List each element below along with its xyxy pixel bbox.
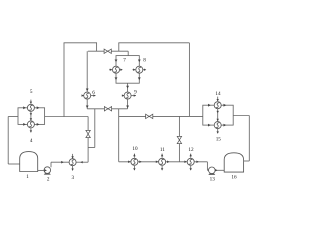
HX11 top arrow xyxy=(161,154,163,156)
wire riser x94.8 xyxy=(94,109,96,148)
label 7 xyxy=(123,57,126,63)
arrow into HX9 xyxy=(126,86,129,89)
svg-text:6: 6 xyxy=(92,90,95,96)
HX5-HX4 connecting stub xyxy=(30,111,32,121)
HX3 bottom arrow xyxy=(71,169,73,171)
HX8 left stub xyxy=(133,69,136,71)
HX10 bottom arrow xyxy=(133,168,135,170)
tank 16 xyxy=(224,153,243,172)
svg-text:2: 2 xyxy=(47,177,50,183)
svg-text:14: 14 xyxy=(215,91,221,97)
HX9 right stub xyxy=(131,95,136,97)
HX8 right stub arrow xyxy=(144,69,146,71)
wire manifold y108.8 xyxy=(87,108,127,110)
label 16 xyxy=(231,174,237,180)
HX7 right stub arrow xyxy=(120,69,122,71)
HX5 top arrow xyxy=(30,102,32,104)
arrow top edge right xyxy=(37,106,40,109)
pump 2 xyxy=(44,167,51,175)
label 4 xyxy=(30,138,33,144)
label 1 xyxy=(26,174,29,180)
label 13 xyxy=(210,177,216,183)
wire top-right horizontal y42.8 xyxy=(118,42,189,44)
valve V2 on manifold xyxy=(104,107,111,111)
arrow into HX3 from right xyxy=(80,161,82,163)
arrow into HX3 xyxy=(61,161,64,164)
wire box to HX9 xyxy=(127,83,129,92)
HX11 top stub xyxy=(161,154,163,158)
HX6 right stub xyxy=(91,95,96,97)
arrow down left edge bottom xyxy=(115,77,118,80)
label 9 xyxy=(134,89,137,95)
parallel box for HX7 HX8 xyxy=(116,56,139,84)
label 2 xyxy=(47,177,50,183)
arrow bottom edge left xyxy=(23,123,26,126)
wire into tank 1 xyxy=(8,163,20,165)
wire right box outlet xyxy=(233,115,249,117)
heat exchanger 3 xyxy=(69,159,76,166)
arrow into pump 2 xyxy=(44,169,47,172)
wire bottom row y161.8 xyxy=(119,161,208,163)
HX10 bottom stub xyxy=(133,166,135,170)
HX9 left stub xyxy=(122,95,124,97)
HX6 left stub arrow xyxy=(82,94,84,96)
arrow after HX11 xyxy=(167,161,170,164)
HX12 top stub xyxy=(190,154,192,158)
HX11 bottom arrow xyxy=(161,168,163,170)
label 3 xyxy=(72,175,75,181)
HX7 left stub arrow xyxy=(110,69,112,71)
wire pump2 outlet up xyxy=(50,162,52,167)
wire HX6 to manifold xyxy=(86,99,88,109)
heat exchanger 7 xyxy=(113,66,120,73)
tank 1 xyxy=(20,152,38,172)
HX15 top arrow xyxy=(217,119,219,121)
label 10 xyxy=(132,146,138,152)
HX12 bottom stub xyxy=(190,166,192,170)
HX3 top stub xyxy=(72,154,74,159)
HX9 right stub arrow xyxy=(134,94,136,96)
wire long horizontal y116.4 xyxy=(119,115,203,117)
svg-text:13: 13 xyxy=(210,177,216,183)
label 15 xyxy=(216,136,222,142)
HX14 top stub xyxy=(217,97,219,101)
heat exchanger 5 xyxy=(27,104,34,111)
HX14-HX15 connecting stub xyxy=(217,109,219,122)
arrow down right edge top xyxy=(138,60,141,63)
arrow after pump 13 xyxy=(215,169,218,172)
label 11 xyxy=(160,147,165,153)
svg-text:12: 12 xyxy=(188,147,194,153)
label 8 xyxy=(143,57,146,63)
arrow top edge left xyxy=(23,106,26,109)
heat exchanger 15 xyxy=(214,122,221,129)
wire top-left horizontal y42.8 xyxy=(64,42,97,44)
wire outer right vertical x249.3 xyxy=(248,116,250,162)
svg-text:3: 3 xyxy=(72,175,75,181)
valve V3 on long horizontal xyxy=(146,114,153,118)
wire branch y147.5 xyxy=(88,147,95,149)
HX12 bottom arrow xyxy=(190,168,192,170)
wire feed drop to box 7/8 xyxy=(127,51,129,55)
label 6 xyxy=(92,90,95,96)
HX4 bottom arrow xyxy=(30,130,32,132)
arrow bottom edge left (right box) xyxy=(208,124,211,127)
wire left riser x64 xyxy=(63,43,65,117)
HX8 left stub arrow xyxy=(133,69,135,71)
arrow into HX6 xyxy=(86,89,89,92)
svg-text:4: 4 xyxy=(30,138,33,144)
svg-text:15: 15 xyxy=(216,136,222,142)
heat exchanger 9 xyxy=(124,92,131,99)
wire right riser x189.4 xyxy=(188,43,190,117)
heat exchanger 11 xyxy=(159,158,166,165)
HX10 top arrow xyxy=(133,154,135,156)
arrow into HX10 xyxy=(128,161,131,164)
wire jog up x118.8 xyxy=(118,43,120,51)
HX4 top arrow xyxy=(30,118,32,120)
heat exchanger 6 xyxy=(84,92,91,99)
arrow into HX11 xyxy=(156,161,159,164)
arrow top edge right (right box) xyxy=(224,104,227,107)
HX3 bottom stub xyxy=(72,166,74,170)
svg-text:7: 7 xyxy=(123,57,126,63)
wire corner down to pump13 xyxy=(206,162,208,171)
HX12 top arrow xyxy=(190,154,192,156)
arrow HX6 outlet xyxy=(86,106,89,109)
parallel box for HX14 HX15 xyxy=(203,105,233,125)
valve V1 on y51.2 xyxy=(104,49,111,53)
HX4 bottom stub xyxy=(30,128,32,132)
arrow after HX12 xyxy=(196,161,199,164)
HX14 top arrow xyxy=(217,99,219,101)
heat exchanger 4 xyxy=(27,121,34,128)
heat exchanger 12 xyxy=(187,158,194,165)
HX5 bottom arrow xyxy=(30,113,32,115)
arrow bottom edge right (right box) xyxy=(224,124,227,127)
arrow bottom edge right xyxy=(37,123,40,126)
svg-text:11: 11 xyxy=(160,147,165,153)
wire tank1 to pump2 xyxy=(38,169,46,171)
HX15 bottom stub xyxy=(217,129,219,133)
wire mid drop x118.7 xyxy=(118,109,120,162)
wire left box inlet xyxy=(8,116,18,118)
wire tank16 right xyxy=(244,160,250,162)
wire left box outlet y116.5 xyxy=(45,116,89,118)
arrow after HX10 xyxy=(139,161,142,164)
HX8 right stub xyxy=(143,69,146,71)
parallel box for HX5 HX4 xyxy=(18,108,45,125)
svg-text:8: 8 xyxy=(143,57,146,63)
valve V5 vertical xyxy=(86,130,90,137)
HX5 top stub xyxy=(30,100,32,104)
wire jog down x96.6 xyxy=(96,42,98,51)
svg-text:16: 16 xyxy=(231,174,237,180)
heat exchanger 10 xyxy=(131,158,138,165)
arrow down left edge top xyxy=(115,60,118,63)
pump 13 xyxy=(208,167,215,175)
svg-text:9: 9 xyxy=(134,89,137,95)
svg-text:10: 10 xyxy=(132,146,138,152)
wire to pump13 xyxy=(207,169,208,171)
HX15 bottom arrow xyxy=(217,131,219,133)
HX11 bottom stub xyxy=(161,166,163,170)
heat exchanger 8 xyxy=(136,66,143,73)
wire outer left vertical x8.2 xyxy=(7,117,9,165)
arrow top edge left (right box) xyxy=(208,104,211,107)
svg-text:1: 1 xyxy=(26,174,29,180)
valve V4 vertical xyxy=(177,136,181,143)
svg-text:5: 5 xyxy=(30,89,33,95)
wire valve line y51.2 xyxy=(88,50,128,52)
wire HX9 down xyxy=(127,99,129,109)
wire valve to HX3 xyxy=(76,161,88,163)
HX7 right stub xyxy=(120,69,123,71)
wire drop x179.4 xyxy=(178,116,180,161)
wire pump2 to HX3 xyxy=(51,161,69,163)
label 14 xyxy=(215,91,221,97)
arrow down right edge bottom xyxy=(138,77,141,80)
HX7 left stub xyxy=(109,69,112,71)
label 12 xyxy=(188,147,194,153)
HX14 bottom arrow xyxy=(217,111,219,113)
arrow into HX12 xyxy=(184,161,187,164)
HX10 top stub xyxy=(133,154,135,158)
wire drop x88.1 xyxy=(87,117,89,163)
HX9 left stub arrow xyxy=(122,94,124,96)
HX6 right stub arrow xyxy=(93,94,95,96)
wire down to HX6 xyxy=(86,51,88,92)
arrow HX9 outlet xyxy=(126,106,129,109)
heat exchanger 14 xyxy=(214,102,221,109)
HX6 left stub xyxy=(82,95,84,97)
label 5 xyxy=(30,89,33,95)
HX3 top arrow xyxy=(71,156,73,158)
wire pump13 to tank16 xyxy=(215,169,224,171)
